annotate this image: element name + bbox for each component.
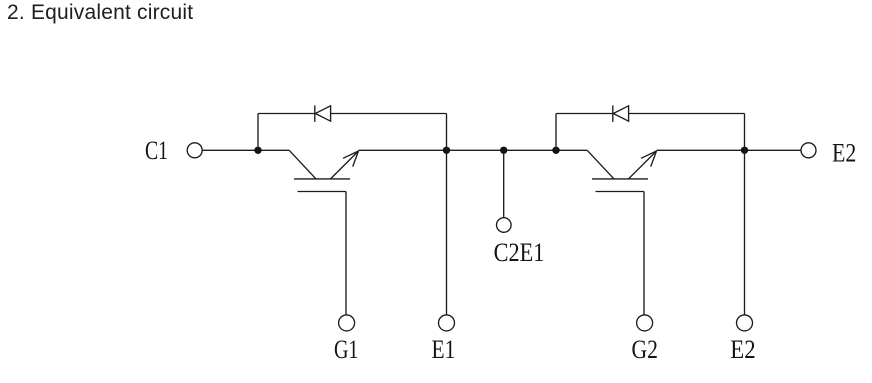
terminal C2E1 [497, 218, 512, 233]
IGBT Q2 emitter arrow barb lower [651, 151, 657, 167]
wire E2 vertical [744, 114, 746, 316]
terminal G1 [339, 315, 355, 331]
wire rail Q2 emitter to E2 [657, 149, 802, 151]
IGBT Q2 collector slant [587, 150, 614, 179]
wire top left to diode D2 [556, 113, 613, 115]
IGBT Q1 collector slant [289, 150, 316, 179]
title "2. Equivalent circuit" [7, 1, 193, 25]
wire up from C1 junction [257, 114, 259, 151]
wire gate G2 down [643, 192, 645, 316]
diode D1 cathode bar [314, 105, 316, 122]
IGBT Q1 emitter arrow barb upper [343, 151, 359, 158]
IGBT Q1 emitter slant [331, 151, 359, 179]
svg-text:G1: G1 [334, 336, 359, 365]
node dot E1/C2 top [443, 147, 450, 154]
IGBT Q1 emitter arrow barb lower [353, 151, 359, 167]
node dot C1 rail junction [254, 147, 261, 154]
wire E1 vertical [446, 114, 448, 316]
terminal G2 [637, 315, 653, 331]
wire top left to diode D1 [258, 113, 315, 115]
IGBT Q2 gate bar [596, 191, 645, 193]
svg-text:E1: E1 [431, 336, 455, 364]
wire C2E1 down [503, 150, 505, 217]
svg-text:C1: C1 [145, 135, 168, 164]
terminal E2 bottom [737, 315, 753, 331]
IGBT Q1 gate bar [298, 191, 347, 193]
IGBT Q2 emitter arrow barb upper [641, 151, 657, 158]
node dot Q2 collector junction [552, 147, 559, 154]
terminal C1 [187, 143, 202, 158]
svg-text:E2: E2 [832, 140, 856, 168]
diode D1 triangle [315, 106, 330, 121]
svg-text:G2: G2 [631, 336, 657, 364]
wire up from Q2 junction [555, 114, 557, 151]
diode D2 triangle [613, 106, 628, 121]
IGBT Q2 body bar [592, 178, 648, 180]
wire gate G1 down [345, 192, 347, 316]
terminal E1 [439, 315, 455, 331]
terminal E2 right [801, 143, 816, 158]
diode D2 cathode bar [612, 105, 614, 122]
wire rail Q1 emitter to Q2 collector [359, 149, 588, 151]
wire diode D1 to top right corner [331, 113, 447, 115]
svg-text:C2E1: C2E1 [494, 238, 545, 267]
IGBT Q2 emitter slant [629, 151, 657, 179]
node dot E2 junction [741, 147, 748, 154]
IGBT Q1 body bar [294, 178, 350, 180]
svg-text:E2: E2 [730, 336, 755, 365]
wire rail C1 to Q1 collector [202, 149, 289, 151]
wire diode D2 to top right corner [629, 113, 745, 115]
node dot C2E1 [500, 147, 507, 154]
